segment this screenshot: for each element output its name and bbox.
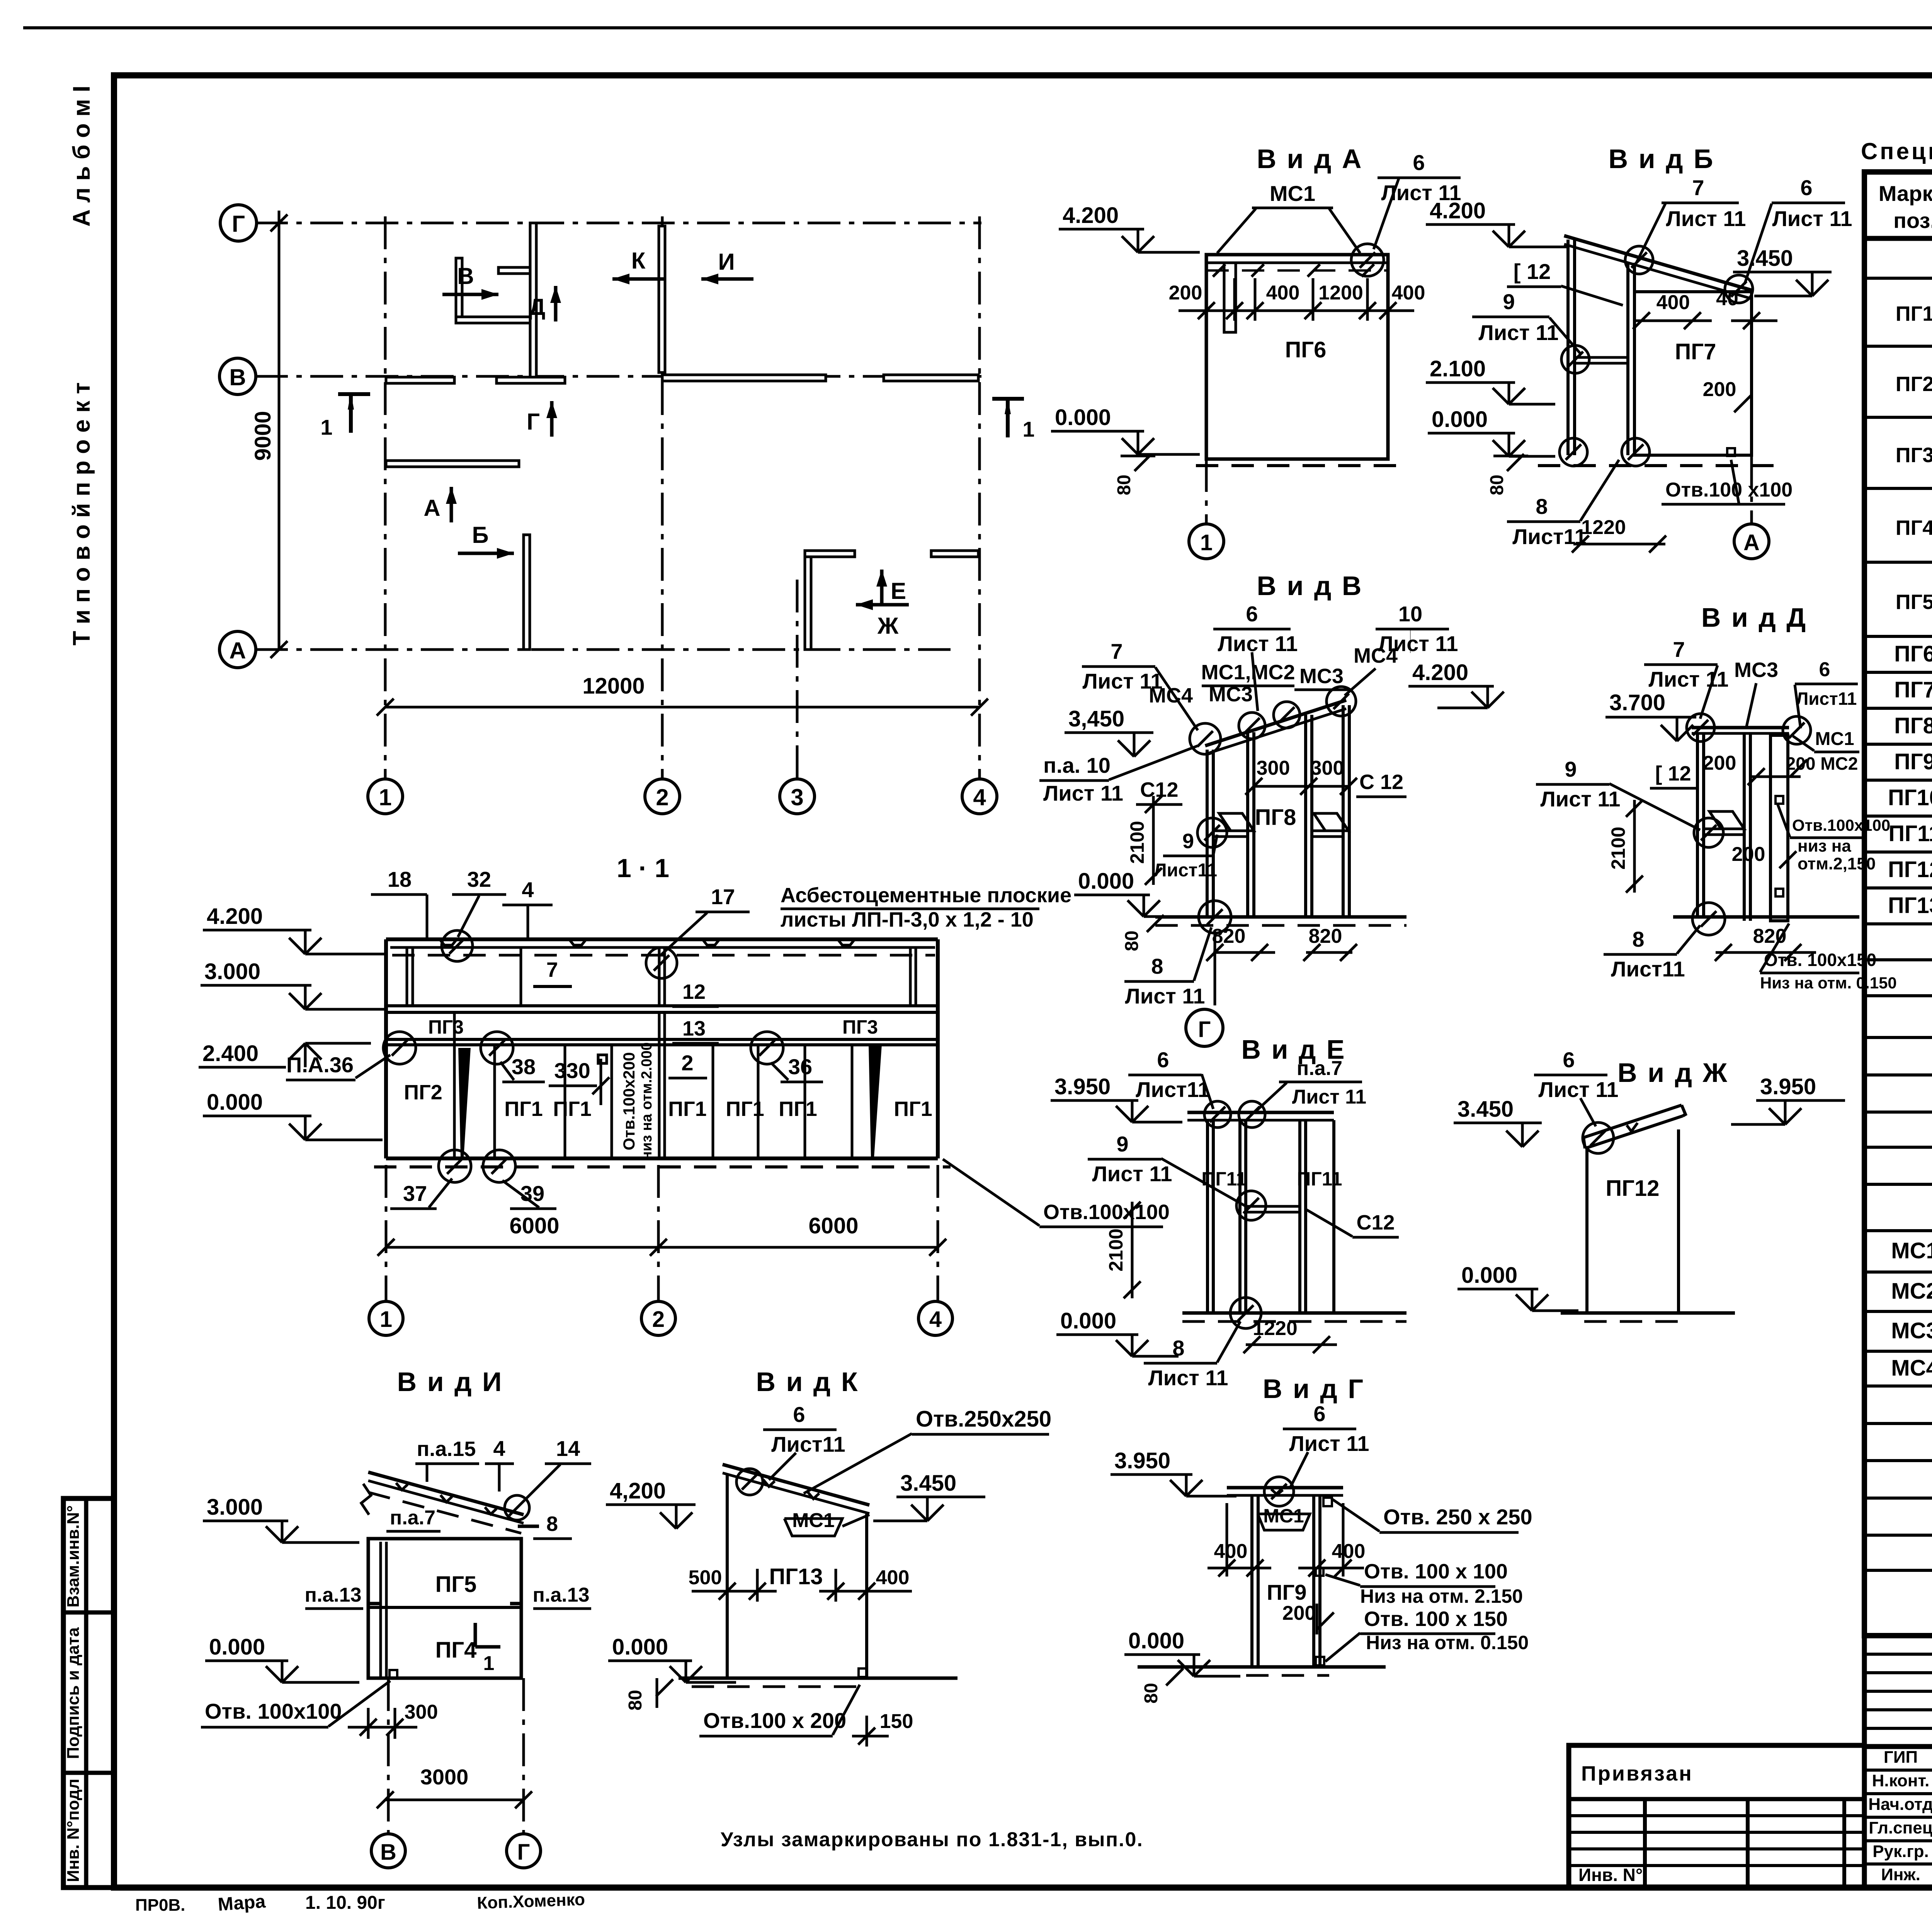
title block signature rows [1864, 1744, 1932, 1749]
svg-text:А: А [423, 495, 440, 521]
svg-text:Лист11: Лист11 [1136, 1077, 1210, 1102]
view G node circle [1264, 1477, 1294, 1506]
svg-text:п.а.15: п.а.15 [417, 1437, 476, 1461]
svg-text:300: 300 [405, 1701, 438, 1723]
svg-text:[ 12: [ 12 [1655, 762, 1691, 785]
svg-text:1: 1 [379, 784, 391, 810]
svg-text:4.200: 4.200 [1412, 660, 1468, 685]
plan wall Zh top [805, 551, 855, 557]
spec table row lines [1864, 277, 1932, 280]
svg-text:4,200: 4,200 [610, 1478, 666, 1503]
plan wall along V line mid [497, 377, 565, 383]
svg-text:Низ на отм. 2.150: Низ на отм. 2.150 [1360, 1585, 1523, 1607]
svg-text:80: 80 [1141, 1683, 1162, 1703]
plan wall along V right of 2 [662, 375, 826, 381]
view Zh bottom line [1561, 1311, 1735, 1315]
svg-text:Гл.спец: Гл.спец [1869, 1818, 1932, 1837]
svg-text:1200: 1200 [1318, 282, 1363, 304]
svg-text:3.700: 3.700 [1609, 690, 1665, 715]
svg-text:2100: 2100 [1126, 821, 1148, 864]
section black wedge left [458, 1048, 471, 1157]
svg-text:ПГ5: ПГ5 [435, 1572, 477, 1597]
svg-text:400: 400 [1332, 1540, 1366, 1563]
svg-text:6: 6 [1246, 602, 1258, 626]
svg-text:п.а. 10: п.а. 10 [1043, 753, 1111, 777]
svg-text:Лист 11: Лист 11 [1538, 1077, 1618, 1102]
svg-text:МС2: МС2 [1891, 1279, 1932, 1304]
svg-text:0.000: 0.000 [1128, 1628, 1184, 1653]
section right edge [936, 939, 940, 1158]
view B grid circle A [1734, 524, 1769, 559]
svg-text:ПГ7: ПГ7 [1894, 677, 1932, 702]
svg-text:Н.конт.: Н.конт. [1872, 1771, 1930, 1790]
svg-text:МС1,МС2: МС1,МС2 [1201, 661, 1295, 684]
svg-text:ПГ6: ПГ6 [1894, 641, 1932, 667]
svg-text:2.400: 2.400 [202, 1041, 259, 1066]
svg-text:4: 4 [929, 1307, 942, 1332]
svg-text:Лист11: Лист11 [1154, 860, 1217, 881]
svg-text:Рук.гр.: Рук.гр. [1872, 1842, 1929, 1861]
section grid circle 2 [641, 1301, 675, 1335]
svg-text:2: 2 [652, 1307, 665, 1332]
view E tie [1246, 1205, 1300, 1208]
svg-text:Лист 11: Лист 11 [1772, 206, 1852, 231]
privyazan box [1569, 1745, 1864, 1888]
svg-text:Марка,: Марка, [1879, 181, 1932, 206]
view I panel outline [368, 1539, 521, 1678]
svg-text:2.100: 2.100 [1430, 356, 1486, 381]
svg-text:ПГ13: ПГ13 [1888, 893, 1932, 918]
svg-text:Спецификация элементов к сх: Спецификация элементов к схеме расположе… [1861, 138, 1932, 164]
svg-text:3.000: 3.000 [204, 959, 260, 984]
svg-text:6: 6 [1413, 150, 1425, 175]
svg-text:200: 200 [1703, 378, 1736, 401]
svg-text:400: 400 [1392, 282, 1425, 304]
svg-text:400: 400 [876, 1566, 910, 1589]
plan wall room D left [456, 258, 462, 321]
svg-text:ПГ1: ПГ1 [726, 1097, 764, 1121]
svg-text:6000: 6000 [509, 1213, 559, 1238]
svg-text:820: 820 [1212, 925, 1246, 947]
svg-text:Инж.: Инж. [1881, 1865, 1920, 1884]
svg-text:ПГ11: ПГ11 [1297, 1168, 1342, 1190]
view G small square bottom [1316, 1657, 1324, 1665]
section grid circle 4 [918, 1301, 952, 1335]
plan wall along V line left [386, 377, 454, 383]
plan wall room D top short [498, 267, 530, 274]
view B axis to circle A [1750, 455, 1753, 524]
svg-text:В и д И: В и д И [397, 1367, 503, 1397]
svg-text:п.а.13: п.а.13 [304, 1584, 361, 1606]
plan grid line 4 [978, 216, 981, 778]
svg-text:Асбестоцементные плоские: Асбестоцементные плоские [781, 884, 1071, 907]
svg-text:6: 6 [1563, 1048, 1575, 1072]
view G small square top [1323, 1498, 1332, 1506]
plan wall E top [931, 551, 978, 557]
svg-text:7: 7 [1692, 175, 1704, 200]
svg-text:Отв.100х200: Отв.100х200 [620, 1052, 638, 1150]
svg-text:ПГ3: ПГ3 [1896, 444, 1932, 467]
svg-text:Д: Д [529, 294, 546, 320]
svg-text:И: И [718, 249, 735, 275]
svg-text:В и д В: В и д В [1257, 571, 1363, 601]
svg-text:Г: Г [527, 409, 540, 435]
svg-text:ПГ12: ПГ12 [1605, 1176, 1659, 1201]
svg-text:14: 14 [556, 1436, 580, 1461]
section axis dashdot 4 [937, 1165, 939, 1301]
view A dim row [1179, 310, 1414, 312]
section small square hole [598, 1055, 607, 1063]
svg-text:330: 330 [554, 1058, 590, 1083]
svg-text:200: 200 [1703, 752, 1736, 774]
plan wall along V right of 3 [884, 375, 978, 381]
svg-text:0.000: 0.000 [1078, 869, 1134, 894]
section black wedge right [869, 1045, 882, 1157]
svg-text:12: 12 [682, 980, 706, 1003]
title block small grid left [1864, 1636, 1932, 1747]
svg-text:[ 12: [ 12 [1514, 259, 1551, 284]
svg-text:3.450: 3.450 [1458, 1097, 1514, 1122]
svg-text:1 · 1: 1 · 1 [617, 854, 669, 883]
svg-text:1: 1 [380, 1307, 392, 1332]
svg-text:80: 80 [625, 1690, 646, 1710]
svg-text:1: 1 [483, 1652, 495, 1675]
svg-text:12000: 12000 [582, 673, 645, 699]
svg-text:ПГ4: ПГ4 [1896, 516, 1932, 539]
view G top band [1227, 1486, 1343, 1490]
svg-text:4: 4 [493, 1436, 505, 1461]
svg-text:Отв. 100 х 100: Отв. 100 х 100 [1364, 1560, 1508, 1583]
plan section mark 1 right [992, 397, 1024, 401]
view A axis line to circle [1205, 459, 1208, 524]
svg-text:п.а.13: п.а.13 [532, 1584, 589, 1606]
svg-text:Отв.100 х100: Отв.100 х100 [1665, 479, 1793, 501]
plan wall K vertical [530, 223, 536, 381]
svg-text:Узлы замаркированы по 1.831: Узлы замаркированы по 1.831-1, вып.0. [721, 1828, 1143, 1851]
view V bottom line [1155, 915, 1406, 919]
section roof rib line2 [658, 947, 661, 1006]
svg-text:6: 6 [1313, 1401, 1325, 1426]
svg-text:500: 500 [689, 1566, 722, 1589]
svg-text:А л ь б о м I: А л ь б о м I [68, 86, 95, 227]
view G small square mid [1316, 1568, 1323, 1576]
svg-text:0.000: 0.000 [1060, 1308, 1116, 1333]
svg-text:ПГ1: ПГ1 [668, 1097, 706, 1121]
view K bottom dashed [692, 1685, 867, 1688]
svg-text:200: 200 [1732, 843, 1765, 866]
svg-text:ПГ12: ПГ12 [1888, 857, 1932, 882]
svg-text:ПР0В.: ПР0В. [135, 1896, 185, 1915]
svg-text:МС1: МС1 [1891, 1238, 1932, 1264]
svg-text:ПГ4: ПГ4 [435, 1638, 477, 1663]
view V posts [1206, 750, 1209, 917]
svg-text:МС1: МС1 [1263, 1505, 1304, 1527]
svg-text:80: 80 [1122, 930, 1142, 951]
svg-text:Отв. 250 х 250: Отв. 250 х 250 [1383, 1505, 1532, 1529]
svg-text:Низ на отм. 0.150: Низ на отм. 0.150 [1760, 974, 1897, 992]
view V ties C12 [1213, 830, 1248, 832]
svg-text:6000: 6000 [808, 1213, 858, 1238]
svg-text:МС3: МС3 [1299, 665, 1344, 688]
svg-text:Лист 11: Лист 11 [1292, 1086, 1366, 1108]
svg-text:ПГ9: ПГ9 [1267, 1580, 1306, 1604]
view E posts [1206, 1120, 1209, 1313]
plan grid circle 3 [780, 779, 815, 814]
svg-text:3.450: 3.450 [1737, 246, 1793, 271]
view A bottom dashed [1196, 464, 1406, 467]
view A grid circle 1 [1189, 524, 1224, 559]
svg-text:2100: 2100 [1607, 827, 1629, 869]
svg-text:2100: 2100 [1105, 1228, 1127, 1271]
svg-text:В и д Б: В и д Б [1609, 144, 1715, 174]
plan grid line A [255, 648, 951, 651]
view D bottom line [1673, 915, 1859, 919]
svg-text:7: 7 [546, 958, 558, 981]
svg-text:1: 1 [1200, 530, 1213, 555]
section node PA36 [383, 1032, 416, 1064]
svg-text:МС1: МС1 [1270, 181, 1315, 206]
view Zh panel PG12 [1587, 1129, 1679, 1313]
svg-text:1: 1 [320, 415, 332, 439]
svg-text:3: 3 [791, 784, 803, 810]
svg-text:Отв.250х250: Отв.250х250 [916, 1406, 1051, 1432]
view D posts [1696, 733, 1699, 917]
svg-text:Отв.100 х 200: Отв.100 х 200 [703, 1708, 846, 1733]
view E top band [1187, 1111, 1334, 1114]
svg-text:0.000: 0.000 [612, 1634, 668, 1660]
svg-text:ПГ10: ПГ10 [1888, 785, 1932, 810]
plan grid circle 4 [962, 779, 997, 814]
svg-text:2: 2 [681, 1051, 693, 1075]
plan grid circle V [219, 358, 256, 395]
svg-text:МС4: МС4 [1149, 684, 1193, 707]
svg-text:Низ на отм. 0.150: Низ на отм. 0.150 [1366, 1632, 1529, 1653]
view I roof band [368, 1472, 524, 1515]
svg-text:4.200: 4.200 [1063, 203, 1119, 228]
svg-text:С 12: С 12 [1359, 770, 1403, 794]
section roof band top line [386, 937, 938, 941]
svg-text:Мара: Мара [217, 1891, 266, 1915]
plan grid line 2 [661, 216, 664, 778]
svg-text:А: А [1743, 530, 1760, 555]
plan grid circle A [219, 631, 256, 668]
view I panel divider [368, 1606, 521, 1609]
view A panel PG6 [1206, 255, 1388, 459]
svg-text:Отв.100х100: Отв.100х100 [1043, 1201, 1170, 1224]
svg-text:9: 9 [1182, 830, 1194, 853]
section bottom dashed line [374, 1165, 951, 1168]
view I small square [389, 1670, 397, 1678]
svg-text:8: 8 [546, 1512, 558, 1536]
svg-text:Лист 11: Лист 11 [1666, 206, 1746, 231]
view I grid circle V [371, 1834, 405, 1868]
svg-text:Лист 11: Лист 11 [1478, 320, 1558, 345]
svg-text:ПГ1: ПГ1 [1896, 302, 1932, 325]
plan grid circle G [220, 205, 257, 241]
svg-text:400: 400 [1214, 1540, 1248, 1563]
view K node circle [736, 1469, 763, 1495]
view D tie C12 [1704, 828, 1744, 830]
view I panel inner left double [379, 1542, 382, 1677]
svg-text:ПГ6: ПГ6 [1285, 337, 1327, 362]
svg-text:В и д Ж: В и д Ж [1617, 1058, 1729, 1088]
svg-text:ПГ1: ПГ1 [779, 1097, 817, 1121]
view A node circle [1351, 244, 1384, 276]
svg-text:Коп.Хоменко: Коп.Хоменко [477, 1890, 585, 1913]
svg-text:Отв. 100х100: Отв. 100х100 [205, 1699, 342, 1723]
svg-text:Лист 11: Лист 11 [1289, 1431, 1369, 1456]
view D node circles [1687, 714, 1714, 742]
plan wall line2 vertical [659, 226, 665, 372]
svg-text:А: А [229, 638, 246, 663]
spec table header underline [1864, 236, 1932, 241]
svg-text:40: 40 [1716, 287, 1738, 310]
plan dim 12000 [385, 706, 980, 709]
svg-text:ПГ11: ПГ11 [1889, 821, 1932, 846]
section grid circle 1 [369, 1301, 403, 1335]
spec table outer border [1864, 172, 1932, 1636]
svg-text:ПГ8: ПГ8 [1894, 713, 1932, 738]
section panel joint lines [453, 1045, 456, 1158]
section left edge [384, 939, 388, 1158]
svg-text:0.000: 0.000 [1055, 405, 1111, 430]
svg-text:6: 6 [793, 1402, 805, 1427]
svg-text:Лист 11: Лист 11 [1378, 631, 1458, 656]
svg-text:листы ЛП-П-3,0 х 1,2 - 10: листы ЛП-П-3,0 х 1,2 - 10 [781, 908, 1034, 931]
svg-text:8: 8 [1172, 1336, 1184, 1360]
view I node circle [505, 1495, 529, 1520]
view V bottom dashed [1155, 924, 1406, 927]
section roof dashed line [392, 954, 935, 957]
svg-text:820: 820 [1309, 925, 1342, 947]
svg-text:В и д К: В и д К [756, 1367, 859, 1397]
svg-text:ПГ2: ПГ2 [1896, 372, 1932, 396]
svg-text:4.200: 4.200 [1430, 198, 1486, 223]
svg-text:В: В [457, 263, 474, 289]
view V node circles [1190, 723, 1221, 754]
svg-text:Отв. 100х150: Отв. 100х150 [1764, 950, 1876, 970]
svg-text:7: 7 [1673, 637, 1685, 662]
svg-text:4.200: 4.200 [207, 904, 263, 929]
svg-text:18: 18 [388, 867, 412, 891]
svg-text:3.450: 3.450 [900, 1471, 956, 1496]
svg-text:п.а.7: п.а.7 [390, 1507, 435, 1529]
svg-text:3.000: 3.000 [207, 1495, 263, 1520]
svg-text:П.А.36: П.А.36 [286, 1053, 354, 1077]
svg-text:ПГ8: ПГ8 [1255, 805, 1296, 830]
svg-text:Инв. N°подл: Инв. N°подл [64, 1779, 83, 1882]
view G posts [1250, 1495, 1253, 1667]
svg-text:300: 300 [1311, 757, 1344, 779]
svg-text:ПГ7: ПГ7 [1675, 339, 1716, 364]
section roof rib right [909, 947, 912, 1006]
svg-text:ПГ1: ПГ1 [894, 1097, 932, 1121]
svg-text:3.950: 3.950 [1760, 1074, 1816, 1099]
view I grid circle G [507, 1834, 541, 1868]
svg-text:2: 2 [656, 784, 668, 810]
svg-text:0.000: 0.000 [1432, 407, 1488, 432]
view Zh bottom dashed [1584, 1320, 1685, 1323]
svg-text:низ на отм.2.000: низ на отм.2.000 [639, 1042, 655, 1160]
svg-text:ПГ9: ПГ9 [1894, 749, 1932, 774]
svg-text:ПГ1: ПГ1 [504, 1097, 543, 1121]
svg-text:6: 6 [1800, 175, 1812, 200]
svg-text:1. 10. 90г: 1. 10. 90г [305, 1893, 385, 1913]
svg-text:200: 200 [1282, 1602, 1316, 1624]
svg-text:300: 300 [1257, 757, 1290, 779]
svg-text:Отв. 100 х 150: Отв. 100 х 150 [1364, 1607, 1508, 1631]
view I axis lines [387, 1678, 390, 1833]
section node 36 [751, 1032, 783, 1064]
view B bottom dashed [1538, 464, 1785, 467]
view D small squares [1776, 796, 1783, 804]
svg-text:ПГ3: ПГ3 [842, 1016, 878, 1038]
view B tie [1575, 356, 1628, 359]
svg-text:В: В [229, 364, 246, 390]
section panels bottom line [386, 1156, 938, 1160]
svg-text:1: 1 [1022, 417, 1034, 441]
svg-text:6: 6 [1157, 1048, 1169, 1072]
svg-text:Т и п о в о й п р о е к т: Т и п о в о й п р о е к т [68, 382, 95, 645]
view A MC1 hook [1224, 263, 1236, 332]
svg-text:3,450: 3,450 [1068, 706, 1124, 731]
svg-text:Е: Е [891, 578, 906, 604]
view I roof notches [396, 1483, 408, 1490]
svg-text:Лист 11: Лист 11 [1540, 787, 1620, 811]
svg-text:Лист 11: Лист 11 [1125, 984, 1205, 1008]
plan dim 9000 [278, 211, 281, 650]
svg-text:Лист 11: Лист 11 [1043, 781, 1123, 805]
svg-text:8: 8 [1536, 494, 1548, 519]
view G bottom dashed [1246, 1674, 1329, 1677]
svg-text:3000: 3000 [420, 1765, 469, 1789]
view I roof dashed [368, 1492, 521, 1533]
view E bottom dashed [1182, 1320, 1406, 1323]
svg-text:Лист11: Лист11 [1796, 689, 1857, 709]
svg-text:Лист 11: Лист 11 [1092, 1162, 1172, 1186]
svg-text:п.а.7: п.а.7 [1297, 1057, 1342, 1080]
svg-text:17: 17 [711, 884, 735, 909]
section node 38 [481, 1032, 513, 1064]
svg-text:поз.: поз. [1893, 208, 1932, 233]
plan section mark 1 left [338, 392, 370, 396]
view D top bar [1692, 726, 1789, 730]
view K sloped band [723, 1464, 869, 1505]
section roof rib mid [520, 947, 522, 1006]
view B small square [1727, 448, 1735, 456]
view G band notch [1271, 1489, 1283, 1495]
view B sloped beam [1564, 236, 1752, 290]
svg-text:3.950: 3.950 [1054, 1074, 1111, 1099]
section roof rib left [406, 947, 408, 1006]
svg-text:8: 8 [1632, 927, 1644, 951]
svg-text:80: 80 [1114, 474, 1134, 495]
svg-text:9: 9 [1565, 757, 1577, 781]
svg-text:Г: Г [232, 211, 245, 237]
svg-text:Нач.отд: Нач.отд [1868, 1795, 1932, 1814]
view B post 2 [1626, 263, 1629, 455]
view I section mark 1 [474, 1623, 477, 1647]
svg-text:Привязан: Привязан [1581, 1762, 1693, 1785]
svg-text:ГИП: ГИП [1884, 1748, 1918, 1767]
svg-text:36: 36 [788, 1054, 812, 1079]
view K panel PG13 [727, 1475, 867, 1678]
svg-text:0.000: 0.000 [207, 1090, 263, 1115]
section level 2.400 double line [386, 1038, 938, 1041]
section axis dashdot 2 [657, 1165, 660, 1301]
svg-text:Инв. N°: Инв. N° [1578, 1865, 1643, 1885]
view V sloped beam [1205, 700, 1346, 746]
